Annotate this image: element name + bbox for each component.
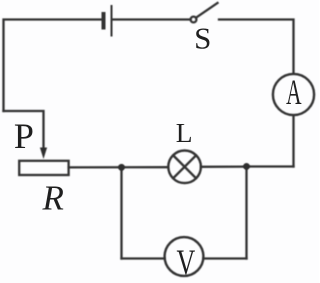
lamp L circle xyxy=(168,151,201,184)
svg-text:A: A xyxy=(286,74,301,113)
svg-text:V: V xyxy=(177,242,196,282)
voltmeter branch left vertical wire xyxy=(120,167,122,258)
voltmeter branch right vertical wire xyxy=(245,167,247,259)
wire ammeter to node B xyxy=(292,115,294,166)
switch S lever xyxy=(196,3,218,18)
wire left-top: left vertical and top run to battery xyxy=(4,20,104,112)
voltmeter branch bottom-right wire xyxy=(203,257,246,259)
svg-text:S: S xyxy=(194,21,211,56)
wire lamp to rheostat xyxy=(69,166,169,168)
wire jog to slider xyxy=(4,111,44,149)
voltmeter U2 circle xyxy=(165,237,204,276)
node B junction dot xyxy=(243,163,250,170)
svg-text:L: L xyxy=(176,117,193,148)
wire node B run xyxy=(247,165,294,167)
battery cell: long positive plate xyxy=(111,6,113,36)
svg-text:P: P xyxy=(14,116,34,156)
ammeter U circle xyxy=(273,74,314,115)
node A junction dot xyxy=(118,164,125,171)
svg-text:R: R xyxy=(42,179,64,218)
slider arrowhead xyxy=(40,148,47,160)
wire node B to lamp xyxy=(201,165,247,167)
lamp L cross stroke 2 xyxy=(173,155,196,178)
switch S pivot circle xyxy=(191,17,197,23)
rheostat R body xyxy=(19,161,68,175)
wire switch to top-right corner down to ammeter xyxy=(219,20,294,74)
lamp L cross xyxy=(173,155,196,178)
wire battery to switch xyxy=(113,18,191,20)
battery cell: short negative plate xyxy=(102,14,106,28)
voltmeter branch bottom-left wire xyxy=(122,257,165,259)
